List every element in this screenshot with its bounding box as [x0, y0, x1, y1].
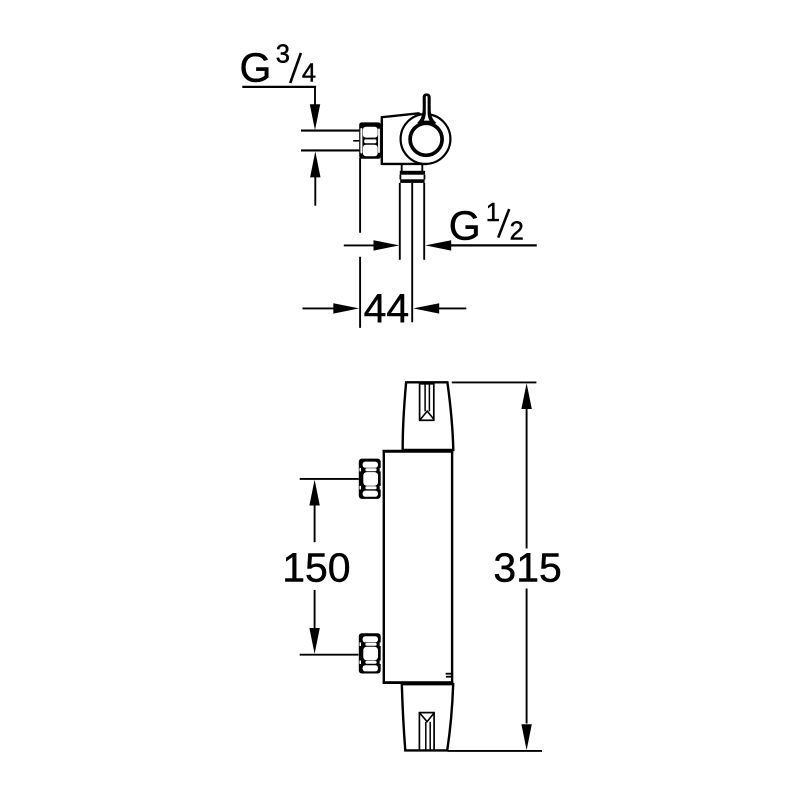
svg-text:G: G [240, 44, 272, 90]
svg-text:2: 2 [510, 218, 524, 246]
svg-text:315: 315 [493, 545, 561, 591]
svg-text:G: G [449, 203, 481, 249]
svg-text:150: 150 [282, 545, 350, 591]
svg-text:3: 3 [276, 40, 290, 68]
svg-text:44: 44 [364, 286, 410, 332]
svg-text:4: 4 [302, 59, 316, 87]
svg-text:1: 1 [486, 199, 500, 227]
